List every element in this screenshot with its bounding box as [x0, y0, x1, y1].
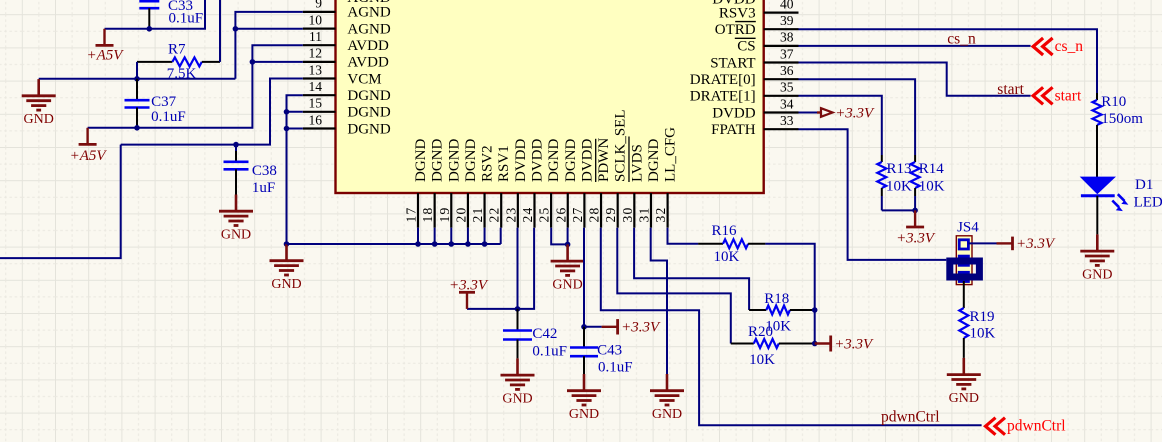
jumper JS4 body — [956, 236, 972, 285]
wire pin 33 FPATH to JS4 — [799, 129, 947, 260]
svg-text:RSV3: RSV3 — [719, 5, 756, 21]
svg-text:39: 39 — [780, 13, 794, 28]
svg-text:+A5V: +A5V — [87, 47, 125, 63]
svg-text:DGND: DGND — [546, 139, 562, 182]
svg-text:7.5K: 7.5K — [167, 66, 197, 82]
power port +A5V (left) — [103, 29, 105, 46]
ground GND (pins 25/26) — [566, 244, 569, 261]
svg-text:GND: GND — [221, 228, 251, 243]
svg-text:R14: R14 — [919, 161, 945, 177]
svg-text:18: 18 — [420, 207, 435, 223]
svg-text:33: 33 — [780, 113, 794, 128]
pin 27 (DVDD) — [583, 193, 585, 228]
capacitor C33 — [148, 0, 150, 1]
pin 39 (OTRD) — [764, 28, 799, 30]
wire pin 39 to R10 — [799, 29, 1098, 93]
pin 31 (DGND) — [650, 193, 652, 228]
svg-text:10K: 10K — [919, 179, 945, 195]
wire from above to R7 right — [219, 0, 221, 62]
svg-text:C43: C43 — [597, 342, 622, 358]
svg-text:15: 15 — [309, 96, 323, 111]
junction pin 15 — [284, 109, 290, 115]
pin 19 (DGND) — [450, 193, 452, 228]
junction C33/wire — [147, 26, 153, 32]
junction R18 right — [812, 307, 818, 313]
JS4 pad 2 — [959, 256, 968, 265]
svg-text:RSV2: RSV2 — [480, 145, 496, 182]
svg-text:31: 31 — [636, 207, 651, 223]
junction R7/C37/GND row — [134, 76, 140, 82]
wire pin 22 drop — [500, 228, 502, 244]
wire LED cathode to GND — [1096, 196, 1098, 235]
pin 10 (AGND) — [303, 28, 336, 30]
wire pin 31 to GND — [651, 228, 667, 374]
pin 21 (RSV2) — [483, 193, 485, 228]
svg-text:LL_CFG: LL_CFG — [663, 127, 679, 182]
svg-text:21: 21 — [470, 207, 485, 223]
svg-text:22: 22 — [487, 207, 502, 223]
svg-text:+3.3V: +3.3V — [1016, 236, 1056, 252]
svg-text:R19: R19 — [970, 309, 995, 325]
junction C42 top — [515, 306, 521, 312]
wire pin 16 stub run — [287, 128, 303, 130]
svg-text:37: 37 — [780, 46, 794, 61]
pin 22 (RSV1) — [500, 193, 502, 228]
ground GND (bus) — [285, 244, 288, 261]
port start — [1033, 87, 1043, 104]
svg-text:35: 35 — [780, 80, 794, 95]
svg-text:CS: CS — [737, 39, 755, 55]
wire ground bus pins 17-22 — [287, 243, 501, 245]
junction C43 top — [581, 324, 587, 330]
wire pin 10 run — [235, 28, 302, 30]
wire pin 24 down and left to +3.3V — [467, 228, 534, 309]
svg-text:10K: 10K — [886, 179, 912, 195]
resistor R16 — [698, 243, 723, 245]
svg-text:36: 36 — [780, 63, 794, 78]
power port +3.3V (C43) — [602, 326, 618, 328]
svg-text:DVDD: DVDD — [529, 139, 545, 182]
svg-text:GND: GND — [652, 407, 682, 422]
wire pin 17 drop — [417, 228, 419, 244]
wire pin 9 down to GND row — [235, 12, 302, 79]
junction pin 21 bus — [482, 241, 488, 247]
svg-text:GND: GND — [502, 391, 532, 406]
svg-text:start: start — [997, 81, 1024, 98]
wire pin 12 stub run — [252, 61, 302, 63]
wire pin 15 stub run — [287, 111, 303, 113]
svg-text:DGND: DGND — [413, 139, 429, 182]
svg-text:40: 40 — [780, 0, 794, 11]
pin 17 (DGND) — [417, 193, 419, 228]
svg-text:GND: GND — [1082, 267, 1112, 282]
power port +A5V (lower) — [86, 128, 88, 145]
svg-text:pdwnCtrl: pdwnCtrl — [881, 409, 940, 426]
svg-text:VCM: VCM — [347, 71, 381, 87]
resistor R10 — [1096, 93, 1098, 100]
svg-text:GND: GND — [569, 407, 599, 422]
resistor R19 — [963, 281, 965, 308]
capacitor C43 — [583, 327, 585, 348]
svg-text:cs_n: cs_n — [1055, 38, 1084, 55]
capacitor C37 — [136, 79, 138, 100]
svg-text:DGND: DGND — [463, 139, 479, 182]
resistor R13 — [881, 155, 883, 162]
IC U? ADS127xx body — [336, 0, 764, 193]
svg-text:23: 23 — [503, 207, 518, 223]
junction C38 top — [233, 142, 239, 148]
svg-text:R16: R16 — [712, 223, 738, 239]
pin 16 (DGND) — [303, 127, 336, 129]
wire pin 29 SCLK_SEL to R20 — [617, 228, 731, 344]
svg-text:17: 17 — [404, 207, 419, 223]
svg-text:10: 10 — [309, 12, 323, 27]
svg-text:0.1uF: 0.1uF — [151, 109, 186, 125]
svg-text:16: 16 — [309, 112, 323, 127]
power port +3.3V arrow (pin 34) — [817, 111, 821, 113]
svg-text:GND: GND — [24, 112, 54, 127]
wire pins 14-16 down to bus — [287, 95, 303, 244]
svg-text:10K: 10K — [714, 249, 740, 265]
junction bus left end — [284, 241, 290, 247]
svg-text:LED: LED — [1134, 195, 1162, 211]
svg-text:C37: C37 — [151, 94, 177, 110]
svg-text:38: 38 — [780, 30, 794, 45]
svg-text:C42: C42 — [532, 326, 557, 342]
JS4 jumper cap — [950, 261, 980, 277]
ground GND (D1) — [1096, 234, 1099, 251]
svg-text:D1: D1 — [1135, 177, 1153, 193]
wire pin 34 to +3.3V arrow — [799, 112, 818, 114]
wire R16 right to pull-up column — [765, 244, 814, 344]
wire pin 27 down to C43 — [583, 228, 585, 327]
wire GND row — [39, 78, 236, 80]
wire C43 to +3.3V stub — [584, 326, 602, 328]
pin 33 (FPATH) — [764, 128, 799, 130]
pin 12 (AVDD) — [303, 61, 336, 63]
svg-text:DRATE[1]: DRATE[1] — [690, 89, 756, 105]
svg-text:29: 29 — [603, 207, 618, 223]
svg-text:DGND: DGND — [646, 139, 662, 182]
wire pin 20 drop — [467, 228, 469, 244]
svg-text:19: 19 — [437, 207, 452, 223]
resistor R18 — [749, 309, 766, 311]
svg-text:27: 27 — [570, 207, 585, 223]
resistor R14 — [914, 155, 916, 162]
wire pins 25/26 join — [551, 228, 567, 245]
power port +3.3V (R13/R14) — [914, 210, 916, 227]
svg-text:DVDD: DVDD — [579, 139, 595, 182]
svg-text:JS4: JS4 — [957, 220, 979, 236]
wire pin 38 to cs_n port — [799, 45, 1031, 47]
svg-text:34: 34 — [780, 96, 794, 111]
svg-text:DGND: DGND — [347, 121, 390, 137]
svg-text:GND: GND — [271, 277, 301, 292]
svg-text:DVDD: DVDD — [712, 105, 755, 121]
ground GND (R19) — [962, 358, 965, 375]
svg-text:RSV1: RSV1 — [496, 145, 512, 182]
port cs_n — [1033, 38, 1043, 55]
JS4 pad 1 — [959, 240, 968, 249]
svg-text:DVDD: DVDD — [513, 139, 529, 182]
wire JS4 pad1 to +3.3V — [968, 242, 996, 244]
capacitor C38 — [235, 145, 237, 151]
svg-text:9: 9 — [315, 0, 322, 11]
svg-text:AVDD: AVDD — [347, 38, 389, 54]
svg-text:R13: R13 — [887, 161, 912, 177]
svg-text:R20: R20 — [748, 324, 773, 340]
svg-text:+3.3V: +3.3V — [621, 320, 661, 336]
pin 34 (DVDD) — [764, 111, 799, 113]
svg-text:+A5V: +A5V — [70, 148, 108, 164]
svg-text:+3.3V: +3.3V — [449, 277, 489, 293]
svg-text:1uF: 1uF — [252, 180, 275, 196]
pin 25 (DGND) — [550, 193, 552, 228]
ground GND (pin 31) — [666, 374, 669, 391]
svg-text:START: START — [710, 55, 755, 71]
svg-text:AGND: AGND — [347, 5, 390, 21]
ground GND (C43) — [583, 374, 586, 391]
wire +A5V/C33 row up to top edge — [105, 0, 206, 29]
pin 15 (DGND) — [303, 111, 336, 113]
wire pin 13 VCM loop — [121, 79, 303, 145]
svg-text:0.1uF: 0.1uF — [169, 11, 204, 27]
junction pin 19 bus — [448, 241, 454, 247]
svg-text:20: 20 — [453, 207, 468, 223]
svg-text:R18: R18 — [764, 291, 789, 307]
svg-text:R10: R10 — [1101, 94, 1126, 110]
wire pin 36 to R14 — [799, 79, 916, 155]
ground GND (far left) — [37, 79, 40, 96]
svg-text:LVDS: LVDS — [629, 144, 645, 182]
junction R20 right — [812, 341, 818, 347]
svg-text:26: 26 — [553, 207, 568, 223]
svg-text:28: 28 — [587, 207, 602, 223]
wire pin 35 to R13 — [799, 96, 882, 155]
svg-text:start: start — [1055, 87, 1082, 104]
LED D1 — [1081, 177, 1115, 193]
svg-text:AGND: AGND — [347, 21, 390, 37]
power port +3.3V (C42) — [466, 292, 468, 309]
pin 40 (RSV3) — [764, 12, 799, 14]
resistor R20 — [731, 343, 754, 345]
pin 11 (AVDD) — [303, 44, 336, 46]
svg-text:11: 11 — [309, 29, 322, 44]
pin 32 (LL_CFG) — [666, 193, 668, 228]
pin 14 (DGND) — [303, 94, 336, 96]
svg-text:DGND: DGND — [347, 105, 390, 121]
wire R13/R14 bottoms — [882, 209, 915, 211]
power port +3.3V (pull-ups) — [815, 342, 831, 344]
pin 29 (SCLK_SEL) — [617, 193, 619, 228]
pin 20 (DGND) — [467, 193, 469, 228]
junction pin 20 bus — [465, 241, 471, 247]
wire pin 30 LVDS to R18 — [634, 228, 749, 310]
svg-text:AVDD: AVDD — [347, 55, 389, 71]
junction pin12 — [250, 59, 256, 65]
svg-text:30: 30 — [620, 207, 635, 223]
svg-text:32: 32 — [653, 207, 668, 223]
svg-text:SCLK_SEL: SCLK_SEL — [613, 109, 629, 182]
junction pin 18 bus — [432, 241, 438, 247]
JS4 pad 3 — [959, 272, 968, 281]
wire pin 23 down to +3.3V row — [517, 228, 519, 309]
svg-text:14: 14 — [309, 79, 323, 94]
svg-text:0.1uF: 0.1uF — [598, 360, 633, 376]
wire pin 18 drop — [434, 228, 436, 244]
svg-text:0.1uF: 0.1uF — [532, 344, 567, 360]
junction pull-up bottom — [912, 208, 918, 214]
ground GND (C38) — [235, 195, 238, 212]
svg-text:PDWN: PDWN — [596, 138, 612, 182]
junction pin 17 bus — [415, 241, 421, 247]
resistor R7 — [137, 61, 172, 63]
svg-text:pdwnCtrl: pdwnCtrl — [1007, 418, 1066, 435]
svg-text:GND: GND — [949, 391, 979, 406]
svg-text:25: 25 — [537, 207, 552, 223]
pin 30 (LVDS) — [633, 193, 635, 228]
svg-text:cs_n: cs_n — [947, 31, 976, 48]
svg-text:FPATH: FPATH — [711, 122, 756, 138]
svg-text:13: 13 — [309, 62, 323, 77]
wire pin 21 drop — [484, 228, 486, 244]
svg-text:+3.3V: +3.3V — [896, 231, 936, 247]
wire pins 11/12 to C37 row — [88, 45, 303, 128]
pin 13 (VCM) — [303, 77, 336, 79]
pin 24 (DVDD) — [533, 193, 535, 228]
pin 38 (CS) — [764, 45, 799, 47]
junction pin9 vertical / +A5V row — [233, 26, 239, 32]
svg-text:12: 12 — [309, 46, 323, 61]
pin 23 (DVDD) — [517, 193, 519, 228]
pin 18 (DGND) — [434, 193, 436, 228]
pin 9 (AGND) — [303, 11, 336, 13]
junction pin 16 — [284, 126, 290, 132]
svg-text:+3.3V: +3.3V — [835, 106, 875, 122]
svg-text:R7: R7 — [168, 42, 186, 58]
svg-text:10K: 10K — [970, 326, 996, 342]
svg-text:DGND: DGND — [347, 88, 390, 104]
ground GND (C42) — [516, 358, 519, 375]
pin 28 (PDWN) — [600, 193, 602, 228]
svg-text:DGND: DGND — [446, 139, 462, 182]
pin 26 (DGND) — [567, 193, 569, 228]
wire down-left to page edge — [0, 145, 121, 259]
port pdwnCtrl — [986, 418, 996, 435]
junction C37 bottom — [134, 125, 140, 131]
svg-text:OTRD: OTRD — [715, 22, 756, 38]
wire pin 28 PDWN route to pdwnCtrl — [601, 228, 982, 426]
svg-text:GND: GND — [552, 277, 582, 292]
pin 37 (START) — [764, 61, 799, 63]
pin 36 (DRATE[0]) — [764, 78, 799, 80]
svg-text:DRATE[0]: DRATE[0] — [690, 72, 756, 88]
svg-text:DGND: DGND — [430, 139, 446, 182]
svg-text:24: 24 — [520, 207, 535, 223]
pin 35 (DRATE[1]) — [764, 95, 799, 97]
svg-text:150om: 150om — [1101, 111, 1143, 127]
power port +3.3V (JS4) — [997, 242, 1013, 244]
svg-text:DGND: DGND — [563, 139, 579, 182]
svg-text:+3.3V: +3.3V — [834, 336, 874, 352]
capacitor C42 — [517, 309, 519, 331]
svg-text:10K: 10K — [749, 352, 775, 368]
wire pin 19 drop — [450, 228, 452, 244]
wire pin 32 to R16 — [668, 228, 699, 244]
junction pins 25/26 — [565, 242, 571, 248]
wire R7 left lead down — [136, 62, 138, 79]
wire pin 37 START to start port — [799, 63, 1031, 96]
svg-text:C38: C38 — [252, 163, 277, 179]
